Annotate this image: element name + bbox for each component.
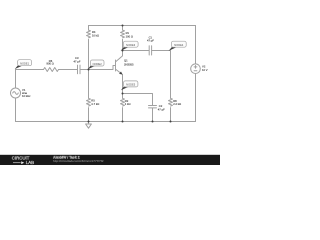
node flag NODE1 bbox=[15, 60, 32, 69]
svg-text:100 Ω: 100 Ω bbox=[126, 34, 133, 38]
wire V2 top bbox=[195, 26, 197, 64]
svg-text:900 Ω: 900 Ω bbox=[47, 62, 54, 66]
svg-text:47 μF: 47 μF bbox=[158, 107, 165, 111]
resistor R8 bbox=[169, 98, 173, 106]
svg-text:47 μF: 47 μF bbox=[147, 39, 154, 43]
wire R5 bottom lead bbox=[88, 108, 90, 122]
capacitor C2 bbox=[149, 106, 157, 108]
resistor R5 bbox=[87, 98, 91, 106]
wire R1 bottom lead bbox=[122, 39, 124, 50]
ground bbox=[86, 122, 92, 129]
logo CircuitLab bbox=[12, 156, 34, 166]
svg-text:LAB: LAB bbox=[26, 160, 34, 165]
wire bottom rail bbox=[16, 121, 196, 123]
svg-text:Q1: Q1 bbox=[124, 59, 128, 63]
wire top rail bbox=[89, 25, 196, 27]
watermark bar bbox=[0, 155, 220, 165]
svg-text:47 μF: 47 μF bbox=[74, 59, 81, 63]
wire R2 bottom lead bbox=[122, 108, 124, 122]
wire R5 top lead bbox=[88, 70, 90, 99]
node flag NODE5 bbox=[121, 81, 138, 90]
svg-text:http://circuitlab.com/c62mmc27: http://circuitlab.com/c62mmc2777f7bf bbox=[53, 159, 104, 163]
svg-text:10 kHz: 10 kHz bbox=[22, 94, 31, 98]
node junction dots bbox=[122, 25, 124, 27]
source V2 bbox=[191, 64, 201, 74]
capacitor C1 bbox=[149, 46, 151, 55]
wire node4 down to R8 bbox=[170, 51, 172, 99]
svg-text:2.2 kΩ: 2.2 kΩ bbox=[173, 102, 181, 106]
node flag NODE4 bbox=[169, 41, 187, 51]
transistor Q1 bbox=[116, 51, 123, 94]
wire R8 bottom lead bbox=[170, 108, 172, 122]
svg-text:NODE4: NODE4 bbox=[174, 43, 184, 47]
svg-text:10 V: 10 V bbox=[202, 68, 208, 72]
capacitor C3 bbox=[78, 65, 81, 74]
node flag NODE2 bbox=[88, 60, 104, 69]
svg-text:NODE1: NODE1 bbox=[20, 62, 30, 66]
wire C2 bottom lead bbox=[152, 108, 154, 122]
wire base signal path bbox=[16, 66, 116, 70]
wire R4 top lead bbox=[88, 26, 90, 31]
svg-text:NODE5: NODE5 bbox=[126, 83, 136, 87]
wire V1 bottom bbox=[15, 98, 17, 122]
node flag NODE3 bbox=[121, 41, 139, 51]
emitter arrowhead bbox=[119, 72, 122, 75]
svg-text:10 kΩ: 10 kΩ bbox=[92, 33, 99, 37]
wire collector to C1 bbox=[123, 50, 150, 52]
resistor R2 bbox=[121, 98, 125, 106]
wire R2 top lead bbox=[122, 94, 124, 99]
wire emitter row bbox=[123, 94, 153, 106]
svg-text:1 kΩ: 1 kΩ bbox=[125, 102, 131, 106]
svg-text:4.7 kΩ: 4.7 kΩ bbox=[91, 102, 99, 106]
wire R4 bottom lead bbox=[88, 39, 90, 69]
resistor R4 bbox=[87, 30, 91, 38]
wire V2 bottom bbox=[195, 74, 197, 122]
svg-text:NODE2: NODE2 bbox=[93, 62, 103, 66]
svg-text:2N3055: 2N3055 bbox=[124, 62, 134, 66]
wire C1 to node4 bbox=[152, 50, 171, 52]
resistor R1 bbox=[121, 30, 125, 38]
wire V1 top bbox=[15, 70, 17, 89]
resistor R6 bbox=[44, 68, 59, 72]
source V1 bbox=[11, 88, 21, 98]
wire R1 top lead bbox=[122, 26, 124, 31]
svg-text:NODE3: NODE3 bbox=[126, 43, 136, 47]
